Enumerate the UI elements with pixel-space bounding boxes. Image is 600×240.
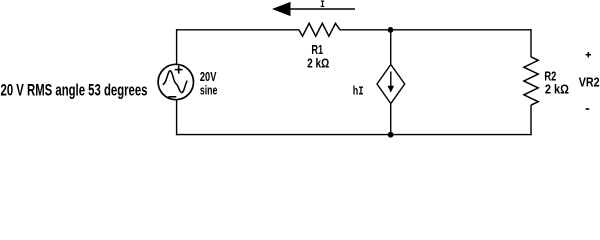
wire bottom horizontal [176,134,532,136]
resistor R2 [524,57,538,105]
voltage source sine wave [163,71,188,93]
wire left vertical lower [176,100,178,136]
svg-text:20V: 20V [200,69,217,84]
svg-text:VR2: VR2 [579,75,600,90]
svg-text:hI: hI [353,86,364,99]
node B junction dot bottom [388,132,394,138]
wire top-left horizontal segment [176,29,299,31]
voltage source V1 circle [158,64,193,99]
current arrow I (pointing left) [272,2,355,16]
dependent current source hI diamond [377,65,405,104]
VR2 plus sign [586,52,591,57]
svg-text:sine: sine [200,83,218,98]
wire right vertical upper [530,29,532,57]
svg-text:2 kΩ: 2 kΩ [307,56,329,71]
wire right vertical lower [530,105,532,135]
wire left vertical upper [176,29,178,65]
voltage source minus sign [168,96,176,98]
VR2 minus sign [586,108,590,110]
svg-text:I: I [320,0,325,11]
node A junction dot top [388,27,394,33]
svg-text:20 V RMS angle 53 degrees: 20 V RMS angle 53 degrees [1,81,148,100]
voltage source plus sign [175,66,183,74]
dependent source inner arrow [388,72,395,93]
wire middle vertical upper [390,30,392,65]
wire middle vertical lower [390,103,392,134]
svg-text:2 kΩ: 2 kΩ [545,82,569,97]
resistor R1 [299,23,340,36]
wire top-right horizontal segment [340,29,532,31]
